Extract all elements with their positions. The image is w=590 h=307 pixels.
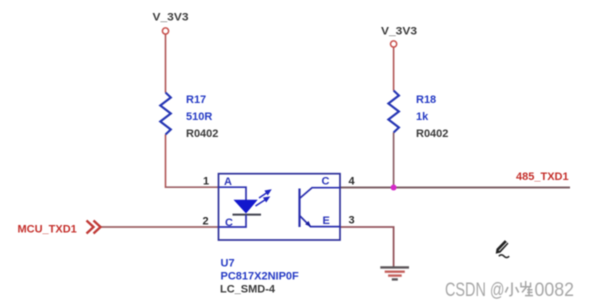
svg-text:3: 3 [349,215,355,227]
svg-text:R0402: R0402 [186,128,218,140]
svg-text:1k: 1k [416,111,429,123]
svg-text:510R: 510R [186,111,212,123]
svg-text:R18: R18 [416,94,436,106]
svg-text:LC_SMD-4: LC_SMD-4 [220,284,276,296]
svg-text:U7: U7 [221,258,235,270]
svg-text:V_3V3: V_3V3 [153,12,189,24]
svg-text:V_3V3: V_3V3 [381,26,417,38]
svg-text:1: 1 [203,176,209,188]
svg-text:A: A [224,176,232,188]
svg-text:PC817X2NIP0F: PC817X2NIP0F [221,271,300,283]
svg-text:R0402: R0402 [416,128,448,140]
svg-text:4: 4 [349,176,356,188]
svg-text:2: 2 [203,216,209,228]
svg-text:C: C [225,217,233,229]
svg-text:E: E [323,215,330,227]
svg-text:0082: 0082 [535,280,575,301]
svg-text:C: C [322,176,330,188]
svg-text:485_TXD1: 485_TXD1 [516,171,569,183]
svg-text:CSDN @: CSDN @ [445,280,505,301]
svg-text:R17: R17 [186,94,206,106]
svg-text:MCU_TXD1: MCU_TXD1 [18,224,77,236]
